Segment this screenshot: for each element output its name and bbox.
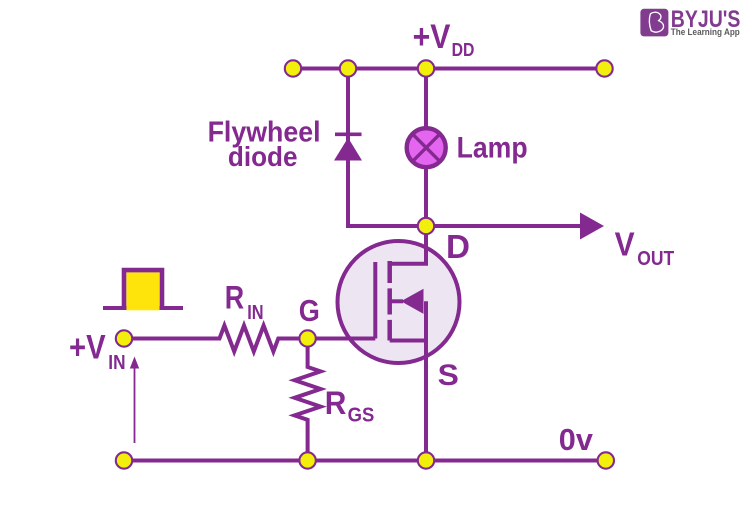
svg-text:Lamp: Lamp bbox=[457, 131, 528, 164]
svg-text:OUT: OUT bbox=[637, 248, 674, 270]
svg-text:V: V bbox=[615, 226, 635, 263]
svg-text:IN: IN bbox=[108, 352, 125, 374]
svg-text:R: R bbox=[225, 280, 244, 316]
svg-text:DD: DD bbox=[452, 40, 475, 60]
svg-text:G: G bbox=[299, 293, 320, 328]
svg-text:GS: GS bbox=[348, 404, 375, 426]
svg-text:diode: diode bbox=[228, 141, 298, 172]
svg-text:D: D bbox=[446, 228, 470, 265]
svg-text:R: R bbox=[325, 385, 347, 421]
svg-text:+V: +V bbox=[69, 328, 106, 366]
svg-text:0v: 0v bbox=[559, 422, 594, 457]
svg-text:IN: IN bbox=[247, 302, 263, 324]
svg-text:+V: +V bbox=[413, 18, 451, 56]
svg-text:The Learning App: The Learning App bbox=[671, 27, 740, 37]
svg-text:S: S bbox=[438, 359, 459, 392]
